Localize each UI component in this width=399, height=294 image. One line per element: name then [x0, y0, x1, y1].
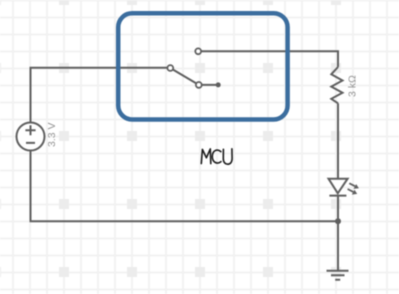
resistor 3 kOhm	[331, 67, 342, 103]
voltage source 3.3 V	[17, 123, 45, 151]
switch lever wire	[170, 68, 218, 85]
value label 3.3 V	[46, 122, 58, 147]
switch bottom throw contact	[196, 82, 202, 88]
svg-text:3.3 V: 3.3 V	[46, 122, 58, 147]
junction node dot	[335, 218, 341, 224]
switch common contact	[167, 65, 173, 71]
wire from switch top contact to resistor	[198, 51, 338, 67]
switch unconnected terminal dot	[216, 82, 221, 87]
wire from voltage source top to switch common	[31, 68, 171, 123]
value label 3 kOhm	[347, 75, 359, 97]
wire from resistor to LED	[337, 103, 339, 178]
switch top throw contact	[195, 48, 201, 54]
wire from LED to ground	[337, 196, 339, 271]
svg-text:3 kΩ: 3 kΩ	[347, 75, 359, 97]
MCU box	[118, 13, 287, 119]
MCU label	[201, 149, 232, 164]
wire from voltage source bottom to junction node	[31, 151, 339, 222]
LED D1	[329, 179, 359, 196]
ground	[327, 271, 349, 280]
